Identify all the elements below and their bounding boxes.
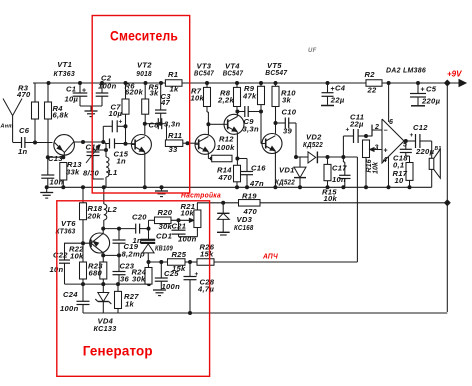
svg-text:2,2k: 2,2k — [217, 96, 234, 105]
svg-text:10k: 10k — [70, 252, 84, 261]
svg-text:1k: 1k — [125, 300, 135, 309]
svg-text:10: 10 — [395, 176, 405, 185]
svg-text:CD1: CD1 — [156, 232, 172, 241]
svg-text:9018: 9018 — [136, 69, 152, 78]
svg-text:47k: 47k — [242, 92, 257, 101]
svg-text:10k: 10k — [191, 94, 205, 103]
svg-text:UF: UF — [308, 48, 317, 54]
svg-text:C12: C12 — [413, 123, 428, 132]
svg-text:39: 39 — [283, 127, 293, 136]
svg-text:+: + — [384, 148, 388, 155]
svg-text:+: + — [421, 87, 425, 94]
svg-text:470: 470 — [218, 173, 233, 182]
svg-text:33: 33 — [169, 145, 179, 154]
svg-text:+: + — [346, 127, 350, 134]
svg-text:C24: C24 — [63, 290, 78, 299]
svg-text:+: + — [119, 119, 123, 126]
svg-text:8/30: 8/30 — [83, 169, 99, 178]
svg-text:Генератор: Генератор — [83, 344, 153, 359]
svg-text:3k: 3k — [282, 96, 292, 105]
svg-text:3,3n: 3,3n — [243, 125, 259, 134]
svg-text:КТ363: КТ363 — [54, 69, 76, 78]
svg-text:100n: 100n — [98, 82, 117, 91]
svg-text:Настройка: Настройка — [181, 191, 221, 200]
svg-text:C10: C10 — [282, 108, 297, 117]
svg-text:47n: 47n — [249, 179, 264, 188]
svg-text:10k: 10k — [371, 161, 380, 174]
svg-text:C4: C4 — [335, 84, 346, 93]
svg-text:АПЧ: АПЧ — [262, 252, 278, 261]
svg-text:+: + — [410, 132, 414, 139]
svg-text:КС168: КС168 — [234, 223, 254, 232]
svg-text:R11: R11 — [168, 131, 182, 140]
svg-text:R1: R1 — [168, 70, 178, 79]
svg-text:C1: C1 — [66, 85, 76, 94]
svg-text:Ант: Ант — [0, 124, 13, 130]
svg-text:+9V: +9V — [447, 70, 462, 79]
svg-text:10n: 10n — [332, 175, 346, 184]
svg-text:4,7µ: 4,7µ — [197, 285, 214, 294]
svg-text:Смеситель: Смеситель — [110, 29, 178, 44]
svg-text:R2: R2 — [365, 70, 376, 79]
svg-text:R20: R20 — [158, 208, 173, 217]
svg-text:100k: 100k — [217, 143, 236, 152]
svg-text:R19: R19 — [242, 192, 257, 201]
svg-text:DA2 LM386: DA2 LM386 — [386, 66, 426, 75]
svg-text:3: 3 — [375, 145, 379, 152]
svg-text:BC547: BC547 — [223, 69, 244, 78]
svg-text:C16: C16 — [251, 164, 266, 173]
svg-text:КД522: КД522 — [275, 178, 295, 187]
svg-text:C21: C21 — [172, 222, 187, 231]
svg-text:470: 470 — [243, 207, 258, 216]
svg-text:36: 36 — [120, 275, 130, 284]
svg-text:C22: C22 — [53, 251, 68, 260]
svg-text:1n: 1n — [117, 157, 127, 166]
svg-text:C13: C13 — [48, 154, 63, 163]
svg-text:L1: L1 — [108, 168, 117, 177]
svg-text:15k: 15k — [200, 250, 214, 259]
svg-text:VT1: VT1 — [57, 60, 72, 69]
svg-text:100n: 100n — [60, 304, 79, 313]
svg-text:КД522: КД522 — [303, 140, 323, 149]
svg-text:33k: 33k — [66, 168, 80, 177]
svg-text:L2: L2 — [108, 205, 118, 214]
svg-text:680: 680 — [89, 269, 103, 278]
svg-text:10µ: 10µ — [109, 109, 123, 118]
svg-text:C25: C25 — [164, 269, 179, 278]
svg-text:30k: 30k — [132, 275, 146, 284]
svg-text:22µ: 22µ — [330, 95, 345, 104]
svg-text:C6: C6 — [19, 126, 30, 135]
svg-text:220µ: 220µ — [421, 96, 441, 105]
svg-text:4: 4 — [382, 157, 387, 164]
svg-text:8,2mp: 8,2mp — [122, 250, 146, 259]
svg-text:КС133: КС133 — [94, 324, 117, 333]
svg-text:6: 6 — [389, 119, 393, 126]
svg-text:3k: 3k — [150, 89, 160, 98]
svg-text:22µ: 22µ — [349, 120, 364, 129]
svg-text:6,8k: 6,8k — [53, 111, 69, 120]
svg-text:1k: 1k — [170, 85, 180, 94]
svg-text:22: 22 — [367, 86, 378, 95]
svg-text:30k: 30k — [159, 222, 173, 231]
svg-text:20k: 20k — [87, 212, 102, 221]
svg-text:100n: 100n — [178, 234, 197, 243]
svg-text:C20: C20 — [132, 213, 147, 222]
svg-text:100n: 100n — [162, 282, 181, 291]
svg-text:VD1: VD1 — [279, 166, 295, 175]
svg-text:620k: 620k — [125, 88, 144, 97]
svg-text:10k: 10k — [324, 194, 338, 203]
svg-text:C17: C17 — [332, 164, 347, 173]
svg-text:10k: 10k — [181, 209, 195, 218]
svg-text:1n: 1n — [18, 147, 28, 156]
svg-text:C8: C8 — [149, 121, 160, 130]
svg-text:+: + — [195, 271, 199, 278]
svg-text:C14: C14 — [86, 143, 101, 152]
svg-text:+: + — [82, 88, 86, 95]
svg-text:C5: C5 — [426, 85, 437, 94]
svg-text:B1: B1 — [435, 146, 442, 152]
svg-text:R25: R25 — [172, 250, 187, 259]
svg-text:BC547: BC547 — [265, 68, 287, 77]
svg-text:10µ: 10µ — [65, 95, 79, 104]
svg-text:BC547: BC547 — [194, 69, 214, 78]
svg-text:−: − — [384, 128, 388, 135]
svg-text:47: 47 — [160, 98, 171, 107]
svg-text:КТ363: КТ363 — [56, 227, 76, 236]
svg-text:470: 470 — [16, 90, 31, 99]
